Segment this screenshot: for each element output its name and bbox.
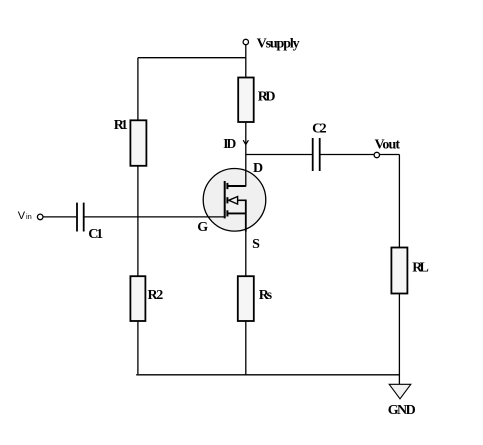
capacitor C2 plate left <box>312 138 314 171</box>
svg-text:R1: R1 <box>114 118 128 133</box>
wire: R1 bottom to divider junction <box>137 166 139 217</box>
svg-text:G: G <box>197 220 208 235</box>
transistor Q1 body arrow <box>229 197 238 205</box>
wire: top rail from R1 branch to Vsupply stem <box>138 57 246 59</box>
wire: Vin terminal to C1 left plate <box>43 216 76 218</box>
ground GND symbol <box>389 384 411 399</box>
arrowhead: drain current ID direction <box>243 140 248 144</box>
svg-text:V: V <box>18 210 26 222</box>
svg-text:C2: C2 <box>312 121 327 136</box>
svg-text:D: D <box>253 161 263 176</box>
svg-text:GND: GND <box>388 403 416 418</box>
resistor Rs <box>238 276 254 321</box>
capacitor C1 plate right <box>83 203 85 232</box>
wire: bottom rail <box>136 374 399 376</box>
resistor R2 <box>130 276 145 321</box>
svg-text:RL: RL <box>412 260 429 275</box>
wire: drain junction to C2 left plate <box>246 154 312 156</box>
terminal Vsupply <box>243 39 248 44</box>
transistor Q1 gate bar <box>224 181 226 218</box>
svg-text:R2: R2 <box>148 288 164 303</box>
svg-text:RD: RD <box>258 90 276 105</box>
wire: divider junction down to R2 top <box>137 217 139 276</box>
terminal Vin <box>37 214 43 220</box>
wire: RD bottom to MOSFET drain (through ID arrow and C2 junction) <box>245 122 247 187</box>
transistor Q1 (MOSFET) envelope <box>203 169 266 232</box>
capacitor C2 plate right <box>319 138 321 171</box>
wire: RL bottom down to ground symbol <box>398 294 400 385</box>
resistor RD <box>238 78 254 123</box>
wire: R2 bottom to bottom rail <box>137 321 139 374</box>
transistor Q1 drain contact tick <box>226 183 228 189</box>
transistor Q1 drain bar <box>227 185 246 187</box>
svg-text:Rs: Rs <box>259 288 273 303</box>
transistor Q1 source contact tick <box>226 210 228 216</box>
wire: body arrow to source line <box>238 199 247 201</box>
svg-text:Vout: Vout <box>375 138 401 153</box>
capacitor C1 plate left <box>76 203 78 232</box>
wire: Rs bottom to bottom rail <box>245 321 247 375</box>
terminal Vout <box>374 152 379 157</box>
transistor Q1 body contact tick <box>226 197 228 203</box>
wire: left branch top rail down to R1 <box>137 58 139 121</box>
svg-text:Vsupply: Vsupply <box>257 37 300 52</box>
wire: source line inside envelope <box>245 200 247 232</box>
wire: source line down to Rs top <box>245 231 247 276</box>
resistor R1 <box>130 120 146 166</box>
transistor Q1 source bar <box>227 212 246 214</box>
wire: right branch down to RL top <box>398 155 400 248</box>
wire: C1 right plate to MOSFET gate (crosses R1/R2 divider junction) <box>85 216 225 218</box>
svg-text:ID: ID <box>223 136 236 151</box>
svg-text:C1: C1 <box>88 227 103 242</box>
svg-text:in: in <box>26 212 32 221</box>
wire: Vsupply stem down to RD top <box>245 44 247 77</box>
svg-text:S: S <box>252 237 260 252</box>
resistor RL <box>391 248 407 294</box>
wire: C2 right plate to Vout terminal and right branch corner <box>321 154 400 156</box>
